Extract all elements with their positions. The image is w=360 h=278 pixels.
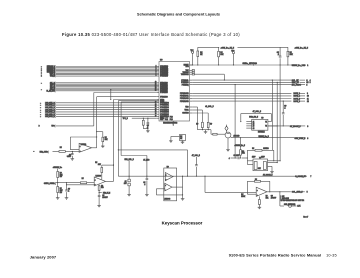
- transistor Q1 / LED: [225, 132, 231, 138]
- resistor R10 upper: [57, 169, 59, 172]
- svg-text:A1: A1: [253, 120, 255, 123]
- wire TMS to SCL rail: [194, 73, 224, 75]
- svg-text:0.1UF: 0.1UF: [67, 156, 71, 158]
- svg-text:+: +: [95, 179, 96, 181]
- wire V2: U1 pin y100.6 down to comparator bus: [118, 100, 157, 102]
- svg-text:10K: 10K: [98, 164, 102, 166]
- svg-text:PTF0/ROW0: PTF0/ROW0: [180, 93, 189, 95]
- resistor R8 series: [59, 151, 65, 153]
- svg-text:R?: R?: [242, 151, 244, 153]
- svg-text:MC68HC908AP16: MC68HC908AP16: [163, 122, 177, 125]
- op-amp U2B LM4880: [94, 177, 105, 186]
- resistor R11 series: [80, 182, 86, 184]
- svg-text:TP?_5: TP?_5: [123, 118, 128, 120]
- svg-text:9100-ES Series Portable Radio: 9100-ES Series Portable Radio Service Ma…: [229, 253, 337, 258]
- svg-text:GETC_CURR (: GETC_CURR (: [44, 183, 56, 185]
- resistor R3 10K: [287, 47, 289, 51]
- svg-text:PTE0/SCL: PTE0/SCL: [181, 80, 188, 82]
- svg-text:+SW_B+_UI_5: +SW_B+_UI_5: [295, 47, 309, 49]
- svg-text:SWB+_KEYPAD: SWB+_KEYPAD: [243, 62, 258, 65]
- svg-text:41_COL_5: 41_COL_5: [205, 105, 213, 108]
- test point TP1: [192, 51, 194, 53]
- op-amp U2A LM4880: [79, 143, 92, 152]
- svg-text:C?: C?: [125, 181, 127, 183]
- wire mic line: [53, 150, 60, 152]
- resistor R4 dropper: [192, 106, 197, 108]
- svg-text:2: 2: [306, 85, 307, 87]
- op-amp U4: [256, 187, 267, 196]
- svg-text:100K: 100K: [241, 196, 246, 198]
- svg-text:PTC5/KBD5: PTC5/KBD5: [160, 114, 169, 116]
- svg-text:10K: 10K: [266, 197, 270, 199]
- U1 JTAG pin number boxes: [192, 70, 194, 72]
- ground near crystal: [271, 166, 273, 171]
- resistor R1 1K: [197, 47, 199, 51]
- svg-text:TCK: TCK: [186, 70, 190, 72]
- op-amp U3 comparator box: [164, 168, 177, 201]
- wire opamp2 feedback: [102, 164, 114, 166]
- crystal wires left: [247, 160, 253, 162]
- svg-text:PTF3/ROW3: PTF3/ROW3: [180, 101, 189, 103]
- resistor R5 dropper: [192, 109, 202, 111]
- svg-text:D: D: [41, 89, 42, 91]
- wire long vertical C: [279, 65, 281, 161]
- wire 4T_HOOK pin line y125.9: [268, 125, 305, 127]
- svg-text:R?: R?: [241, 194, 243, 196]
- svg-text:10K: 10K: [220, 54, 224, 56]
- svg-text:1000PF: 1000PF: [102, 197, 107, 199]
- svg-text:D: D: [40, 102, 41, 104]
- capacitor C8 0.1 left of comparator: [146, 156, 148, 179]
- svg-text:Figure 10.35 023-5500-480-01/: Figure 10.35 023-5500-480-01/487 User In…: [62, 32, 240, 37]
- wire SCL: [192, 79, 291, 81]
- svg-text:C?: C?: [271, 196, 273, 198]
- svg-text:C?: C?: [143, 182, 145, 184]
- svg-text:Keyscan Processor: Keyscan Processor: [162, 220, 203, 225]
- ground below R9: [101, 145, 105, 147]
- wire opamp1 output riser up to U1: [92, 147, 97, 149]
- U1 left pin stubs: [157, 66, 159, 68]
- svg-text:R?: R?: [252, 148, 254, 150]
- svg-text:TP?: TP?: [231, 50, 234, 52]
- wire stub from bus group2: [110, 90, 112, 100]
- wire inverter feedback loop: [241, 113, 272, 115]
- svg-text:+SW_B+_UI_5: +SW_B+_UI_5: [221, 47, 235, 49]
- svg-text:1%: 1%: [60, 176, 63, 178]
- svg-text:D: D: [41, 82, 42, 84]
- svg-text:10MEG: 10MEG: [263, 148, 269, 150]
- svg-text:D: D: [40, 107, 41, 109]
- inverter input wires: [246, 121, 251, 123]
- svg-text:10K: 10K: [60, 174, 64, 176]
- svg-text:4T_SCAN_5: 4T_SCAN_5: [263, 174, 273, 177]
- svg-text:PAD_SD_5: PAD_SD_5: [249, 116, 258, 119]
- svg-text:TDI/OSC: TDI/OSC: [183, 72, 190, 74]
- wire INT_PROC: [192, 84, 291, 86]
- net label MIC_HI branch: [99, 192, 100, 193]
- wire joining droppers to ground: [198, 129, 212, 131]
- wire crystal top loop: [247, 149, 255, 151]
- svg-text:MIC_AUD (: MIC_AUD (: [40, 151, 49, 154]
- svg-text:+: +: [257, 190, 258, 192]
- svg-text:1%: 1%: [60, 192, 63, 194]
- svg-text:P5.2: P5.2: [165, 116, 168, 118]
- svg-text:10K: 10K: [105, 139, 109, 141]
- svg-text:5: 5: [307, 191, 308, 193]
- svg-text:12: 12: [307, 101, 309, 103]
- svg-text:TP?: TP?: [190, 50, 193, 52]
- capacitor C9 22PF on left: [231, 157, 238, 159]
- wire main bus y176.2 to right connector: [164, 175, 307, 177]
- svg-text:R?: R?: [196, 124, 198, 126]
- svg-text:TMS/OSC2: TMS/OSC2: [181, 74, 189, 76]
- svg-text:Y2: Y2: [265, 126, 267, 128]
- svg-text:4T_HOOK_5: 4T_HOOK_5: [290, 125, 301, 128]
- svg-text:4.7K: 4.7K: [297, 205, 301, 208]
- svg-text:LM4880: LM4880: [96, 174, 102, 177]
- wire C5U_PWR pin line y137.7: [232, 137, 306, 139]
- svg-text:.1: .1: [278, 54, 279, 56]
- op-amp U3A triangle: [165, 173, 173, 181]
- svg-text:LM2903: LM2903: [164, 199, 170, 201]
- wire bus group 2: [56, 82, 157, 84]
- svg-text:10: 10: [307, 96, 309, 98]
- svg-text:/TP2: /TP2: [186, 66, 189, 68]
- svg-text:R?: R?: [60, 188, 62, 190]
- capacitor C1 0.1: [279, 47, 281, 56]
- svg-text:D: D: [39, 126, 40, 128]
- svg-text:R?: R?: [101, 185, 103, 187]
- svg-text:4: 4: [310, 79, 311, 82]
- svg-text:P5.3: P5.3: [170, 116, 173, 118]
- wire bias dropper from bus: [204, 176, 206, 192]
- wire U3B feedback loop below: [156, 194, 182, 196]
- capacitor C4 to ground: [71, 151, 73, 153]
- resistor R6 below y118: [142, 118, 144, 120]
- svg-text:15PF: 15PF: [252, 157, 255, 159]
- junction dots on y65 rail: [192, 64, 193, 65]
- wire U4 output: [267, 191, 291, 193]
- svg-text:+UNSW_B+: +UNSW_B+: [53, 167, 62, 169]
- op-amp U1 keyscan processor IC body: [159, 62, 190, 122]
- svg-text:10K: 10K: [290, 54, 294, 56]
- svg-text:R?: R?: [180, 136, 182, 138]
- wire opamp2 output: [106, 180, 114, 182]
- ground below C3: [146, 130, 150, 132]
- svg-text:8: 8: [310, 82, 311, 84]
- svg-text:.1: .1: [144, 184, 145, 186]
- inverter output wires: [268, 121, 272, 123]
- svg-text:R?: R?: [60, 172, 62, 174]
- resistor R12 lower to ground: [57, 183, 59, 187]
- svg-text:C?: C?: [102, 195, 104, 197]
- svg-text:D: D: [40, 114, 41, 116]
- svg-text:+: +: [80, 146, 81, 148]
- resistor block R7: [180, 135, 186, 141]
- svg-text:Schematic Diagrams and Compone: Schematic Diagrams and Component Layouts: [137, 12, 220, 16]
- svg-text:7: 7: [310, 176, 311, 178]
- svg-text:15PF: 15PF: [261, 157, 264, 159]
- svg-text:−: −: [80, 150, 81, 152]
- svg-text:R?: R?: [95, 162, 97, 164]
- svg-text:P5.5: P5.5: [165, 119, 168, 121]
- svg-text:PTC1/KBD1: PTC1/KBD1: [160, 105, 169, 107]
- svg-text:UNSW_B+_PAD: UNSW_B+_PAD: [292, 64, 306, 67]
- svg-text:PTC2/KBD2: PTC2/KBD2: [160, 107, 169, 109]
- wire ROW_0..ROW_3: [192, 92, 291, 94]
- wire U4 ground leg: [258, 196, 260, 199]
- svg-text:C5U_PWR_5: C5U_PWR_5: [295, 138, 306, 140]
- svg-text:D: D: [40, 105, 41, 107]
- svg-text:10K: 10K: [60, 190, 64, 192]
- wire bus group 1 (keypad rows to U1): [56, 66, 157, 68]
- resistor R2 10K: [218, 47, 220, 51]
- svg-text:1K: 1K: [180, 138, 183, 140]
- svg-text:4T?LED: 4T?LED: [233, 135, 240, 138]
- wire RESET/SWB+ rail y65: [190, 64, 292, 66]
- svg-text:R?: R?: [266, 196, 268, 198]
- svg-text:ROW_3: ROW_3: [294, 101, 300, 103]
- svg-text:1: 1: [307, 65, 308, 67]
- resistor R9 10K to ground: [97, 131, 103, 133]
- wire long vertical B: [276, 82, 278, 162]
- wire bus group 3 (keypad columns to U1): [56, 102, 157, 104]
- wire U1 bottom stub with net arrow: [172, 121, 174, 125]
- wire V1: U1 pin y99.5 down-left to opamp area: [114, 99, 157, 101]
- svg-text:R?: R?: [60, 147, 62, 149]
- svg-text:PTE2/IRQ: PTE2/IRQ: [182, 84, 190, 86]
- svg-text:10V: 10V: [124, 183, 127, 185]
- wire current sense line: [56, 182, 80, 184]
- wire opamp1 feedback loop: [70, 136, 96, 138]
- svg-text:32K: 32K: [258, 168, 262, 170]
- svg-text:P5.1: P5.1: [160, 116, 163, 118]
- node SW_B+ top rail: [198, 46, 219, 48]
- svg-text:MIC_HI_5: MIC_HI_5: [103, 192, 110, 194]
- svg-text:D: D: [40, 109, 41, 111]
- svg-text:.1: .1: [68, 190, 69, 192]
- svg-text:R?: R?: [82, 178, 84, 180]
- svg-text:SMB_(KEYPAD): SMB_(KEYPAD): [284, 203, 296, 206]
- capacitor C5 to ground: [66, 183, 68, 190]
- svg-text:−: −: [95, 184, 96, 186]
- wire Q1 emitter to ground: [227, 138, 229, 150]
- svg-text:4: 4: [229, 157, 230, 160]
- crystal Y1: [253, 159, 268, 171]
- svg-text:+: +: [165, 185, 166, 187]
- ground left of R7: [169, 140, 173, 142]
- svg-text:P5.6: P5.6: [170, 119, 173, 121]
- diode D2 (diamond): [225, 126, 228, 131]
- svg-text:R?: R?: [255, 179, 257, 181]
- svg-text:COL_1 (: COL_1 (: [50, 76, 56, 78]
- svg-text:.1: .1: [284, 108, 285, 110]
- svg-text:PTF1/ROW1: PTF1/ROW1: [180, 96, 189, 98]
- resistor R14 649 and capacitor C6 to ground: [98, 184, 100, 185]
- resistor R13 feedback: [101, 168, 103, 173]
- svg-text:VSSA: VSSA: [185, 109, 190, 112]
- svg-text:4T_COL_5: 4T_COL_5: [253, 110, 261, 113]
- svg-text:D: D: [40, 112, 41, 114]
- svg-text:LM4880: LM4880: [81, 143, 87, 146]
- svg-text:6: 6: [307, 138, 308, 140]
- svg-text:9: 9: [307, 93, 308, 95]
- wire opamp2 lower input: [67, 184, 95, 186]
- svg-text:OSCVSS: OSCVSS: [182, 113, 188, 115]
- ground below R7: [182, 141, 184, 143]
- svg-text:LCD_DATA_0 (: LCD_DATA_0 (: [45, 101, 56, 104]
- wire U4 minus input + feedback loop: [247, 193, 256, 195]
- test point TP2: [232, 52, 234, 54]
- jumper note block: [279, 192, 281, 206]
- wire INT dropper down to crystal cap rail: [234, 85, 236, 158]
- capacitor C7 polarized on MIC_SEL: [128, 161, 130, 180]
- wire long vertical A: [271, 80, 273, 150]
- U1 right pin stubs: [190, 64, 193, 66]
- ground under comparator: [182, 195, 184, 199]
- svg-text:PTC3/KBD3: PTC3/KBD3: [160, 109, 169, 111]
- wire U3B output riser: [172, 186, 183, 188]
- svg-text:U?: U?: [261, 118, 263, 120]
- wire Q1 base line with resistor R17: [210, 130, 212, 135]
- svg-text:4T_SCL_5: 4T_SCL_5: [192, 154, 200, 157]
- svg-text:TP? (: TP? (: [51, 126, 55, 128]
- svg-text:C?: C?: [69, 154, 71, 156]
- svg-text:PTF2/ROW2: PTF2/ROW2: [180, 98, 189, 100]
- svg-text:VDD: VDD: [185, 107, 189, 109]
- svg-text:11: 11: [307, 98, 309, 100]
- svg-text:NC7SZ14: NC7SZ14: [258, 130, 265, 133]
- jumper SJ circle: [289, 205, 292, 208]
- wire MIC_SEL branch y149.9: [118, 149, 187, 151]
- wire from R7 left to ground: [171, 136, 180, 138]
- svg-text:U?: U?: [167, 166, 169, 168]
- wire Q1 collector to C5U line: [230, 137, 231, 138]
- inverter U5 NC7SZ14: [252, 119, 268, 130]
- svg-text:C_SCAN_5V: C_SCAN_5V: [295, 175, 306, 178]
- svg-text:D: D: [41, 76, 42, 78]
- wire SDA: [192, 81, 291, 83]
- svg-text:PTD1/AD9: PTD1/AD9: [160, 95, 168, 98]
- crystal wires right: [268, 160, 281, 162]
- svg-text:C?: C?: [68, 189, 70, 191]
- svg-text:C: C: [306, 80, 308, 82]
- svg-text:Y1: Y1: [265, 121, 267, 123]
- svg-text:+UNSW_B+_5: +UNSW_B+_5: [234, 145, 245, 147]
- ground below C4: [71, 158, 75, 160]
- capacitor C2 on ROW_3: [282, 101, 284, 113]
- svg-text:INT_PROC: INT_PROC: [292, 85, 302, 87]
- svg-text:3: 3: [307, 126, 308, 128]
- svg-text:SJ?: SJ?: [282, 196, 285, 198]
- svg-text:January 2007: January 2007: [30, 254, 57, 259]
- svg-text:R?: R?: [210, 124, 212, 126]
- svg-text:BL_EN_KEY (: BL_EN_KEY (: [46, 90, 55, 92]
- svg-text:D: D: [40, 116, 41, 118]
- wire L5 from U1 y101.9 down to C8: [121, 101, 157, 103]
- svg-text:PTD3: PTD3: [160, 101, 164, 103]
- svg-text:Rev 7: Rev 7: [303, 216, 308, 218]
- svg-text:R?: R?: [105, 137, 107, 139]
- svg-text:C#: C#: [306, 82, 308, 84]
- op-amp U3B triangle: [165, 183, 172, 191]
- svg-text:C? 22PF: C? 22PF: [233, 155, 239, 157]
- wire y118 into U1: [132, 117, 157, 119]
- resistor R5b dropper: [192, 112, 208, 114]
- svg-text:1K: 1K: [200, 54, 203, 56]
- node MIC_AUD input: [33, 151, 34, 152]
